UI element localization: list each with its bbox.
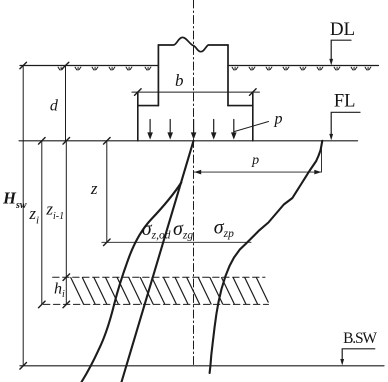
svg-text:DL: DL <box>330 19 355 40</box>
svg-text:FL: FL <box>334 92 356 112</box>
svg-text:hi: hi <box>54 281 65 301</box>
svg-text:zi: zi <box>28 204 39 227</box>
svg-text:b: b <box>175 71 184 90</box>
svg-text:z: z <box>90 179 98 198</box>
svg-text:σzg: σzg <box>173 218 193 242</box>
svg-text:σzp: σzp <box>214 217 234 241</box>
svg-text:d: d <box>50 97 59 114</box>
svg-text:σz,od: σz,od <box>142 218 171 242</box>
svg-text:p: p <box>274 110 283 127</box>
svg-text:B.SW: B.SW <box>343 330 377 347</box>
svg-text:zi-1: zi-1 <box>45 199 64 222</box>
svg-text:p: p <box>251 153 259 168</box>
